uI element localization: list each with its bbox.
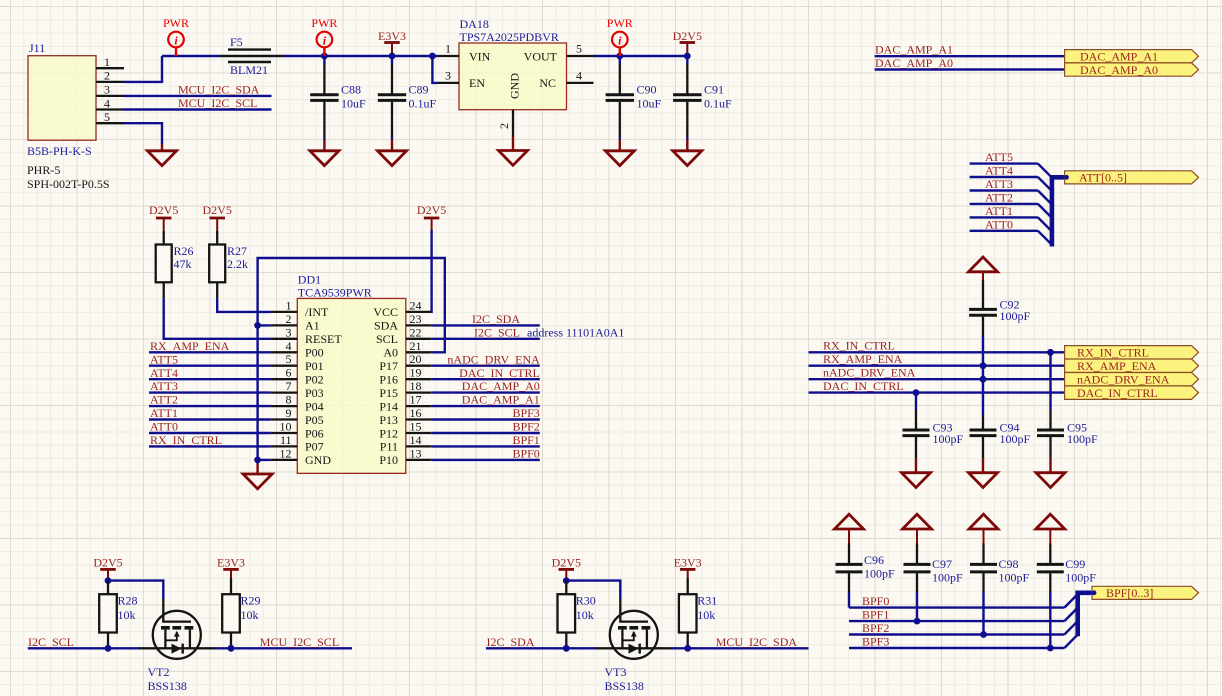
svg-text:DAC_AMP_A0: DAC_AMP_A0: [875, 56, 953, 70]
svg-text:15: 15: [410, 420, 422, 434]
regulator DA18 TPS7A2025PDBVR: [459, 17, 567, 110]
svg-text:RX_AMP_ENA: RX_AMP_ENA: [150, 339, 230, 353]
DD1 pin 18 P15: [379, 379, 431, 400]
svg-text:2.2k: 2.2k: [227, 257, 248, 271]
svg-text:R27: R27: [227, 244, 247, 258]
DD1 pin 19 P16: [379, 366, 431, 387]
svg-text:6: 6: [286, 366, 292, 380]
port ATT[0..5]: [1064, 171, 1198, 185]
svg-text:ATT3: ATT3: [150, 379, 178, 393]
svg-text:C91: C91: [704, 83, 724, 97]
capacitor C89: [378, 56, 437, 140]
wire C98 to BPF: [982, 592, 984, 635]
svg-text:P04: P04: [305, 399, 324, 413]
svg-text:7: 7: [286, 379, 292, 393]
svg-text:GND: GND: [508, 73, 522, 99]
svg-text:10k: 10k: [576, 608, 594, 622]
DD1 pin 12 GND: [271, 446, 332, 467]
svg-text:10k: 10k: [241, 608, 259, 622]
svg-text:16: 16: [410, 406, 422, 420]
up arrow above C92: [969, 257, 998, 280]
svg-text:P02: P02: [305, 373, 324, 387]
svg-text:RX_IN_CTRL: RX_IN_CTRL: [1077, 346, 1149, 360]
wire BPF0 mid: [431, 459, 540, 461]
junction R29 wire: [228, 645, 235, 652]
svg-text:100pF: 100pF: [864, 567, 895, 581]
bus entry ATT1: [1038, 217, 1052, 231]
power port E3V3 above R31: [674, 556, 702, 578]
svg-text:17: 17: [410, 393, 422, 407]
svg-text:1: 1: [104, 55, 110, 69]
capacitor C96: [836, 544, 896, 593]
resistor R28 10k: [99, 581, 137, 649]
DD1 pin 15 P12: [379, 420, 431, 441]
junction C97 BPF: [914, 618, 921, 625]
DD1 pin 2 A1: [271, 312, 320, 333]
svg-text:PWR: PWR: [311, 16, 337, 30]
bus entry BPF1: [1064, 608, 1077, 621]
svg-text:nADC_DRV_ENA: nADC_DRV_ENA: [1077, 373, 1170, 387]
resistor R31 10k: [679, 578, 717, 648]
wire ATT5 left: [149, 365, 271, 367]
power port PWR 1: [163, 16, 189, 56]
J11 pin 2: [96, 69, 124, 83]
svg-text:100pF: 100pF: [1000, 432, 1031, 446]
svg-text:PWR: PWR: [607, 16, 633, 30]
DD1 pin 3 RESET: [271, 325, 343, 346]
power port E3V3 top: [378, 29, 406, 56]
svg-text:MCU_I2C_SCL: MCU_I2C_SCL: [260, 635, 339, 649]
svg-text:SPH-002T-P0.5S: SPH-002T-P0.5S: [27, 177, 110, 191]
svg-text:C98: C98: [999, 557, 1019, 571]
ground under C95: [1036, 458, 1065, 488]
ground under DA18: [499, 137, 528, 166]
svg-text:ATT2: ATT2: [985, 191, 1013, 205]
junction R31 wire: [684, 645, 691, 652]
svg-text:RX_IN_CTRL: RX_IN_CTRL: [150, 433, 222, 447]
svg-text:P14: P14: [379, 399, 398, 413]
svg-text:P07: P07: [305, 440, 324, 454]
bus entry BPF3: [1064, 635, 1077, 648]
svg-text:BLM21: BLM21: [230, 63, 268, 77]
wire BPF2: [849, 633, 1064, 635]
capacitor C94: [970, 415, 1031, 458]
svg-text:4: 4: [576, 69, 582, 83]
wire I2C_SDA: [431, 324, 540, 326]
port DAC_AMP_A1: [1065, 50, 1199, 64]
svg-text:R28: R28: [118, 594, 138, 608]
wire I2C_SCL: [28, 647, 139, 649]
wire nADC_DRV_ENA mid: [431, 365, 540, 367]
DD1 pin 21 A0: [383, 339, 431, 360]
ground under C91: [673, 140, 702, 166]
svg-text:BPF0: BPF0: [512, 447, 539, 461]
svg-text:47k: 47k: [174, 257, 192, 271]
svg-text:18: 18: [410, 379, 422, 393]
wire BPF1: [849, 620, 1064, 622]
svg-text:nADC_DRV_ENA: nADC_DRV_ENA: [823, 366, 916, 380]
DD1 pin 17 P14: [379, 393, 431, 414]
svg-text:10: 10: [280, 420, 292, 434]
wire R27 to /INT: [217, 299, 271, 312]
wire C96 to BPF: [848, 592, 850, 608]
wire J11 pin5 to ground: [124, 123, 162, 144]
svg-text:DD1: DD1: [298, 273, 321, 287]
resistor R27 2.2k: [209, 231, 248, 299]
svg-text:100pF: 100pF: [932, 571, 963, 585]
wire rail to bead: [162, 55, 220, 57]
wire ATT0: [970, 230, 1038, 232]
wire D2V5 to VCC: [430, 230, 433, 312]
svg-text:P13: P13: [379, 413, 398, 427]
svg-text:R26: R26: [174, 244, 194, 258]
power port D2V5 above R26: [149, 203, 178, 231]
svg-text:5: 5: [104, 110, 110, 124]
wire ATT2 left: [149, 405, 271, 407]
DD1 pin 8 P04: [271, 393, 324, 414]
svg-text:R30: R30: [576, 594, 596, 608]
DA18 pin 3 EN: [438, 69, 459, 83]
J11 pin 3: [96, 83, 124, 97]
svg-text:2: 2: [497, 123, 511, 129]
svg-text:4: 4: [286, 339, 292, 353]
wire MCU_I2C_SCL: [124, 108, 272, 110]
wire J11 pin2 to rail: [124, 56, 162, 82]
DA18 pin 1 VIN: [438, 42, 459, 57]
svg-text:ATT1: ATT1: [150, 406, 178, 420]
junction C93 DAC_IN_CTRL: [913, 389, 920, 396]
svg-text:BPF3: BPF3: [862, 635, 889, 649]
svg-text:SCL: SCL: [376, 332, 398, 346]
wire DAC_AMP_A0 mid: [431, 391, 540, 393]
wire C97 to BPF: [916, 592, 918, 621]
svg-text:4: 4: [104, 96, 110, 110]
svg-text:i: i: [618, 34, 622, 48]
svg-text:B5B-PH-K-S: B5B-PH-K-S: [27, 144, 92, 158]
transistor VT2 BSS138: [139, 599, 215, 693]
DD1 pin 1 /INT: [271, 298, 329, 319]
svg-text:P12: P12: [379, 426, 398, 440]
svg-text:1: 1: [286, 298, 292, 312]
DD1 pin 9 P05: [271, 406, 324, 427]
capacitor C97: [904, 544, 964, 593]
svg-text:RX_AMP_ENA: RX_AMP_ENA: [823, 352, 903, 366]
svg-text:A1: A1: [305, 319, 320, 333]
power port D2V5 above R30: [552, 556, 581, 581]
svg-text:i: i: [174, 34, 178, 48]
junction A1: [254, 322, 261, 329]
svg-text:D2V5: D2V5: [552, 556, 581, 570]
resistor R29 10k: [222, 578, 260, 648]
svg-text:13: 13: [410, 446, 422, 460]
wire ATT4: [970, 176, 1038, 178]
junction C99 BPF: [1047, 645, 1054, 652]
capacitor C99: [1037, 544, 1097, 593]
up arrow above C99: [1036, 514, 1065, 543]
DD1 pin 6 P02: [271, 366, 324, 387]
svg-text:24: 24: [410, 298, 422, 312]
wire I2C_SCL: [431, 338, 540, 340]
ground under C94: [969, 458, 998, 488]
svg-text:address 11101A0A1: address 11101A0A1: [527, 325, 624, 339]
wire C92 to C94 vertical: [982, 336, 984, 415]
svg-text:J11: J11: [29, 41, 45, 55]
svg-text:DAC_AMP_A1: DAC_AMP_A1: [462, 393, 540, 407]
svg-text:P17: P17: [379, 359, 398, 373]
DD1 pin 7 P03: [271, 379, 324, 400]
wire RX_IN_CTRL left: [149, 445, 271, 447]
svg-text:ATT5: ATT5: [150, 352, 178, 366]
svg-text:100pF: 100pF: [1065, 571, 1096, 585]
ground under C90: [605, 140, 634, 166]
svg-text:VIN: VIN: [469, 49, 491, 63]
port BPF[0..3]: [1092, 586, 1199, 600]
DD1 pin 13 P10: [379, 446, 431, 467]
svg-text:10uF: 10uF: [341, 96, 366, 110]
wire VOUT rail: [594, 55, 688, 57]
DD1 pin 11 P07: [271, 433, 324, 454]
bus entry ATT3: [1038, 191, 1052, 205]
svg-text:2: 2: [286, 312, 292, 326]
svg-text:14: 14: [410, 433, 422, 447]
svg-text:GND: GND: [305, 453, 331, 467]
svg-text:MCU_I2C_SDA: MCU_I2C_SDA: [716, 635, 798, 649]
svg-text:DAC_AMP_A0: DAC_AMP_A0: [1080, 63, 1158, 77]
bus entry ATT5: [1038, 164, 1052, 178]
wire D2V5 to VT2 gate: [108, 581, 163, 599]
DD1 pin 22 SCL: [376, 325, 431, 346]
svg-text:DAC_IN_CTRL: DAC_IN_CTRL: [459, 366, 540, 380]
wire BPF2 mid: [431, 432, 540, 434]
DA18 pin 2 GND: [497, 110, 513, 137]
wire BPF0: [849, 606, 1064, 608]
wire BPF3: [849, 647, 1064, 649]
svg-text:RESET: RESET: [305, 332, 342, 346]
svg-text:VT2: VT2: [148, 665, 170, 679]
svg-text:I2C_SCL: I2C_SCL: [28, 635, 74, 649]
svg-text:R29: R29: [241, 594, 261, 608]
svg-text:BPF1: BPF1: [862, 608, 889, 622]
svg-text:nADC_DRV_ENA: nADC_DRV_ENA: [447, 352, 540, 366]
wire bead to DA18 VIN: [283, 55, 438, 57]
power port D2V5 above DD1 VCC: [417, 203, 446, 230]
J11 pin 1: [96, 55, 124, 69]
DD1 pin 20 P17: [379, 352, 431, 373]
ground under C88: [310, 140, 339, 166]
svg-text:PHR-5: PHR-5: [27, 163, 60, 177]
svg-text:MCU_I2C_SDA: MCU_I2C_SDA: [178, 83, 260, 97]
DD1 pin 5 P01: [271, 352, 324, 373]
power port PWR 3: [607, 16, 633, 56]
junction C91 rail: [684, 53, 691, 60]
svg-text:0.1uF: 0.1uF: [409, 96, 437, 110]
svg-text:P01: P01: [305, 359, 324, 373]
DD1 pin 14 P11: [380, 433, 431, 454]
power port D2V5 top: [673, 29, 702, 56]
wire to ground DD1: [256, 460, 258, 464]
svg-text:5: 5: [286, 352, 292, 366]
wire A1 A0 net: [258, 258, 445, 352]
transistor VT3 BSS138: [596, 599, 672, 693]
DA18 pin 4 NC: [567, 69, 594, 83]
capacitor C90: [606, 56, 662, 140]
svg-text:3: 3: [104, 83, 110, 97]
svg-text:10k: 10k: [118, 608, 136, 622]
wire ATT2: [970, 203, 1038, 205]
svg-text:VOUT: VOUT: [524, 49, 558, 63]
wire gnd vertical: [258, 325, 271, 460]
svg-text:TCA9539PWR: TCA9539PWR: [298, 286, 372, 300]
svg-text:E3V3: E3V3: [674, 556, 702, 570]
junction C88 rail: [321, 53, 328, 60]
capacitor C88: [310, 56, 366, 140]
svg-text:12: 12: [280, 446, 292, 460]
port RX_AMP_ENA: [1065, 359, 1199, 373]
svg-text:DAC_IN_CTRL: DAC_IN_CTRL: [823, 379, 904, 393]
junction C92 RX_AMP_ENA: [980, 362, 987, 369]
svg-text:100pF: 100pF: [1000, 309, 1031, 323]
wire ATT0 left: [149, 432, 271, 434]
wire ATT4 left: [149, 378, 271, 380]
svg-text:23: 23: [410, 312, 422, 326]
capacitor C95: [1037, 352, 1098, 458]
capacitor C98: [970, 544, 1030, 593]
svg-text:ATT[0..5]: ATT[0..5]: [1079, 171, 1127, 185]
svg-text:3: 3: [286, 325, 292, 339]
svg-text:P00: P00: [305, 346, 324, 360]
bus entry ATT0: [1038, 231, 1052, 245]
svg-text:C88: C88: [341, 83, 361, 97]
svg-text:E3V3: E3V3: [217, 556, 245, 570]
junction R30 wire: [563, 645, 570, 652]
capacitor C93: [903, 393, 964, 458]
junction C90 rail: [616, 53, 623, 60]
svg-text:R31: R31: [697, 594, 717, 608]
wire to EN pin: [432, 56, 438, 83]
power port E3V3 above R29: [217, 556, 245, 578]
wire RX_AMP_ENA left: [149, 351, 271, 353]
junction R28 wire: [105, 645, 112, 652]
port DAC_IN_CTRL: [1065, 386, 1199, 400]
svg-text:I2C_SDA: I2C_SDA: [472, 312, 520, 326]
svg-text:8: 8: [286, 393, 292, 407]
wire BPF3 mid: [431, 418, 540, 420]
svg-text:DA18: DA18: [460, 17, 489, 31]
up arrow above C97: [903, 514, 932, 543]
junction GND pin: [254, 457, 261, 464]
wire I2C_SDA bottom: [486, 647, 596, 649]
svg-text:ATT0: ATT0: [985, 217, 1013, 231]
svg-text:11: 11: [280, 433, 292, 447]
svg-text:100pF: 100pF: [1067, 432, 1098, 446]
svg-text:DAC_AMP_A0: DAC_AMP_A0: [462, 379, 540, 393]
DD1 pin 10 P06: [271, 420, 324, 441]
bus entry ATT2: [1038, 204, 1052, 218]
J11 pin 5: [96, 110, 124, 124]
wire RX_IN_CTRL right: [809, 351, 1065, 353]
svg-text:PWR: PWR: [163, 16, 189, 30]
DD1 pin 24 VCC: [373, 298, 431, 319]
bus entry BPF0: [1064, 594, 1077, 607]
wire ATT3 left: [149, 391, 271, 393]
bus ATT vertical: [1052, 177, 1065, 246]
junction C95 RX_IN_CTRL: [1047, 349, 1054, 356]
svg-text:ATT0: ATT0: [150, 420, 178, 434]
svg-text:ATT1: ATT1: [985, 204, 1013, 218]
ground under J11: [148, 144, 177, 166]
svg-text:10k: 10k: [697, 608, 715, 622]
svg-text:C96: C96: [864, 553, 884, 567]
svg-text:/INT: /INT: [305, 305, 329, 319]
junction EN branch: [429, 53, 436, 60]
svg-text:P15: P15: [379, 386, 398, 400]
ferrite bead F5 BLM21: [220, 35, 283, 77]
wire ATT3: [970, 189, 1038, 191]
svg-text:I2C_SCL: I2C_SCL: [474, 325, 520, 339]
svg-text:C99: C99: [1065, 557, 1085, 571]
wire RX_AMP_ENA right: [809, 365, 1065, 367]
svg-text:VCC: VCC: [373, 305, 398, 319]
svg-text:P05: P05: [305, 413, 324, 427]
bus BPF vertical: [1078, 593, 1092, 637]
DD1 pin 23 SDA: [374, 312, 431, 333]
svg-text:ATT5: ATT5: [985, 150, 1013, 164]
svg-text:D2V5: D2V5: [203, 203, 232, 217]
DD1 pin 16 P13: [379, 406, 431, 427]
wire ATT1 left: [149, 418, 271, 420]
svg-text:i: i: [323, 34, 327, 48]
power port PWR 2: [311, 16, 337, 56]
svg-text:5: 5: [576, 42, 582, 56]
up arrow above C96: [835, 514, 864, 543]
svg-text:BPF0: BPF0: [862, 594, 889, 608]
svg-text:D2V5: D2V5: [149, 203, 178, 217]
svg-text:BSS138: BSS138: [605, 679, 644, 693]
svg-text:P10: P10: [379, 453, 398, 467]
svg-text:ATT4: ATT4: [150, 366, 178, 380]
junction D2V5 R28: [105, 577, 112, 584]
svg-text:P06: P06: [305, 426, 324, 440]
wire BPF1 mid: [431, 445, 540, 447]
wire C99 to BPF: [1049, 592, 1051, 648]
svg-text:EN: EN: [469, 76, 485, 90]
svg-text:19: 19: [410, 366, 422, 380]
svg-text:ATT3: ATT3: [985, 177, 1013, 191]
svg-text:A0: A0: [383, 346, 398, 360]
svg-text:I2C_SDA: I2C_SDA: [487, 635, 535, 649]
port RX_IN_CTRL: [1065, 346, 1199, 360]
svg-text:P11: P11: [380, 440, 398, 454]
capacitor C92: [969, 280, 1030, 336]
bus entry BPF2: [1064, 621, 1077, 634]
svg-text:DAC_AMP_A1: DAC_AMP_A1: [875, 43, 953, 57]
junction C94 nADC_DRV_ENA: [980, 376, 987, 383]
svg-text:D2V5: D2V5: [417, 203, 446, 217]
wire R26 to RESET: [164, 299, 271, 339]
svg-text:NC: NC: [539, 76, 556, 90]
svg-text:RX_IN_CTRL: RX_IN_CTRL: [823, 339, 895, 353]
up arrow above C98: [969, 514, 998, 543]
svg-text:21: 21: [410, 339, 422, 353]
svg-text:C89: C89: [409, 83, 429, 97]
svg-text:0.1uF: 0.1uF: [704, 96, 732, 110]
svg-text:BPF1: BPF1: [512, 433, 539, 447]
ground under C89: [378, 140, 407, 166]
capacitor C91: [673, 56, 732, 140]
svg-text:BSS138: BSS138: [148, 679, 187, 693]
svg-text:MCU_I2C_SCL: MCU_I2C_SCL: [178, 96, 257, 110]
junction C98 BPF: [980, 631, 987, 638]
